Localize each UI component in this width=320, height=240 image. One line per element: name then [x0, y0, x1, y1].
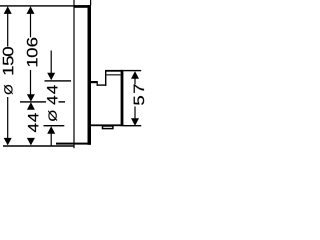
- dimension Ø150: top arrowhead: [4, 6, 12, 14]
- extension line: handle bottom edge stub: [44, 125, 65, 126]
- plate: left edge: [73, 0, 74, 148]
- dimension Ø106: value label: [27, 38, 38, 66]
- dimension Ø44: value label: [47, 85, 57, 121]
- handle: knob top edge: [105, 70, 123, 72]
- extension line: handle centerline: [20, 101, 46, 102]
- dimension 44: bottom arrowhead: [27, 138, 35, 146]
- dimension Ø44: upper shaft: [51, 51, 52, 74]
- dimension Ø44: down arrowhead at handle top: [47, 73, 55, 81]
- dimension Ø150: upper shaft: [7, 13, 8, 46]
- dimension Ø44: lower shaft: [51, 133, 52, 145]
- handle: bottom edge: [91, 124, 123, 126]
- plate: top-right corner extension stub: [90, 0, 91, 5]
- dimension Ø150: value label: [3, 47, 14, 94]
- dimension 57: top arrowhead: [131, 71, 139, 79]
- dimension Ø44: up arrowhead at handle bottom: [47, 126, 55, 134]
- dimension 57: upper shaft: [134, 78, 135, 84]
- extension line: handle centerline (right segment): [59, 101, 66, 102]
- dimension 57: bottom extension line: [123, 125, 141, 126]
- dimension 44: value label: [28, 113, 38, 132]
- handle: collar step vertical: [97, 83, 98, 86]
- dimension Ø106: lower shaft: [30, 70, 31, 94]
- plate: right edge (heavy): [88, 5, 92, 145]
- extension line: bottom tangent of plate: [3, 145, 75, 147]
- dimension Ø106: upper shaft: [30, 13, 31, 37]
- handle: bottom notch: [103, 126, 113, 129]
- dimension Ø106: top arrowhead: [27, 6, 35, 14]
- dimension Ø150: bottom arrowhead: [4, 138, 12, 146]
- extension line: handle top edge stub: [45, 80, 72, 81]
- dimension 44: up arrowhead at centerline: [27, 102, 35, 110]
- plate: top edge: [74, 5, 91, 8]
- dimension 57: lower shaft: [134, 107, 135, 120]
- dimension 57: bottom arrowhead: [131, 118, 139, 126]
- dimension 57: top extension line: [123, 70, 141, 71]
- handle: collar top edge: [91, 81, 98, 83]
- extension line: top tangent of plate: [0, 5, 91, 6]
- dimension Ø150: lower shaft: [7, 97, 8, 138]
- dimension Ø106: down arrowhead at centerline: [27, 94, 35, 101]
- plate: bottom edge with left stub: [56, 143, 91, 145]
- handle: knob left vertical: [105, 70, 106, 85]
- dimension 57: value label: [134, 84, 144, 104]
- handle: knob right edge (heavy): [121, 70, 124, 126]
- handle: body top edge: [97, 84, 107, 85]
- handle: knob top chamfer line: [106, 74, 120, 75]
